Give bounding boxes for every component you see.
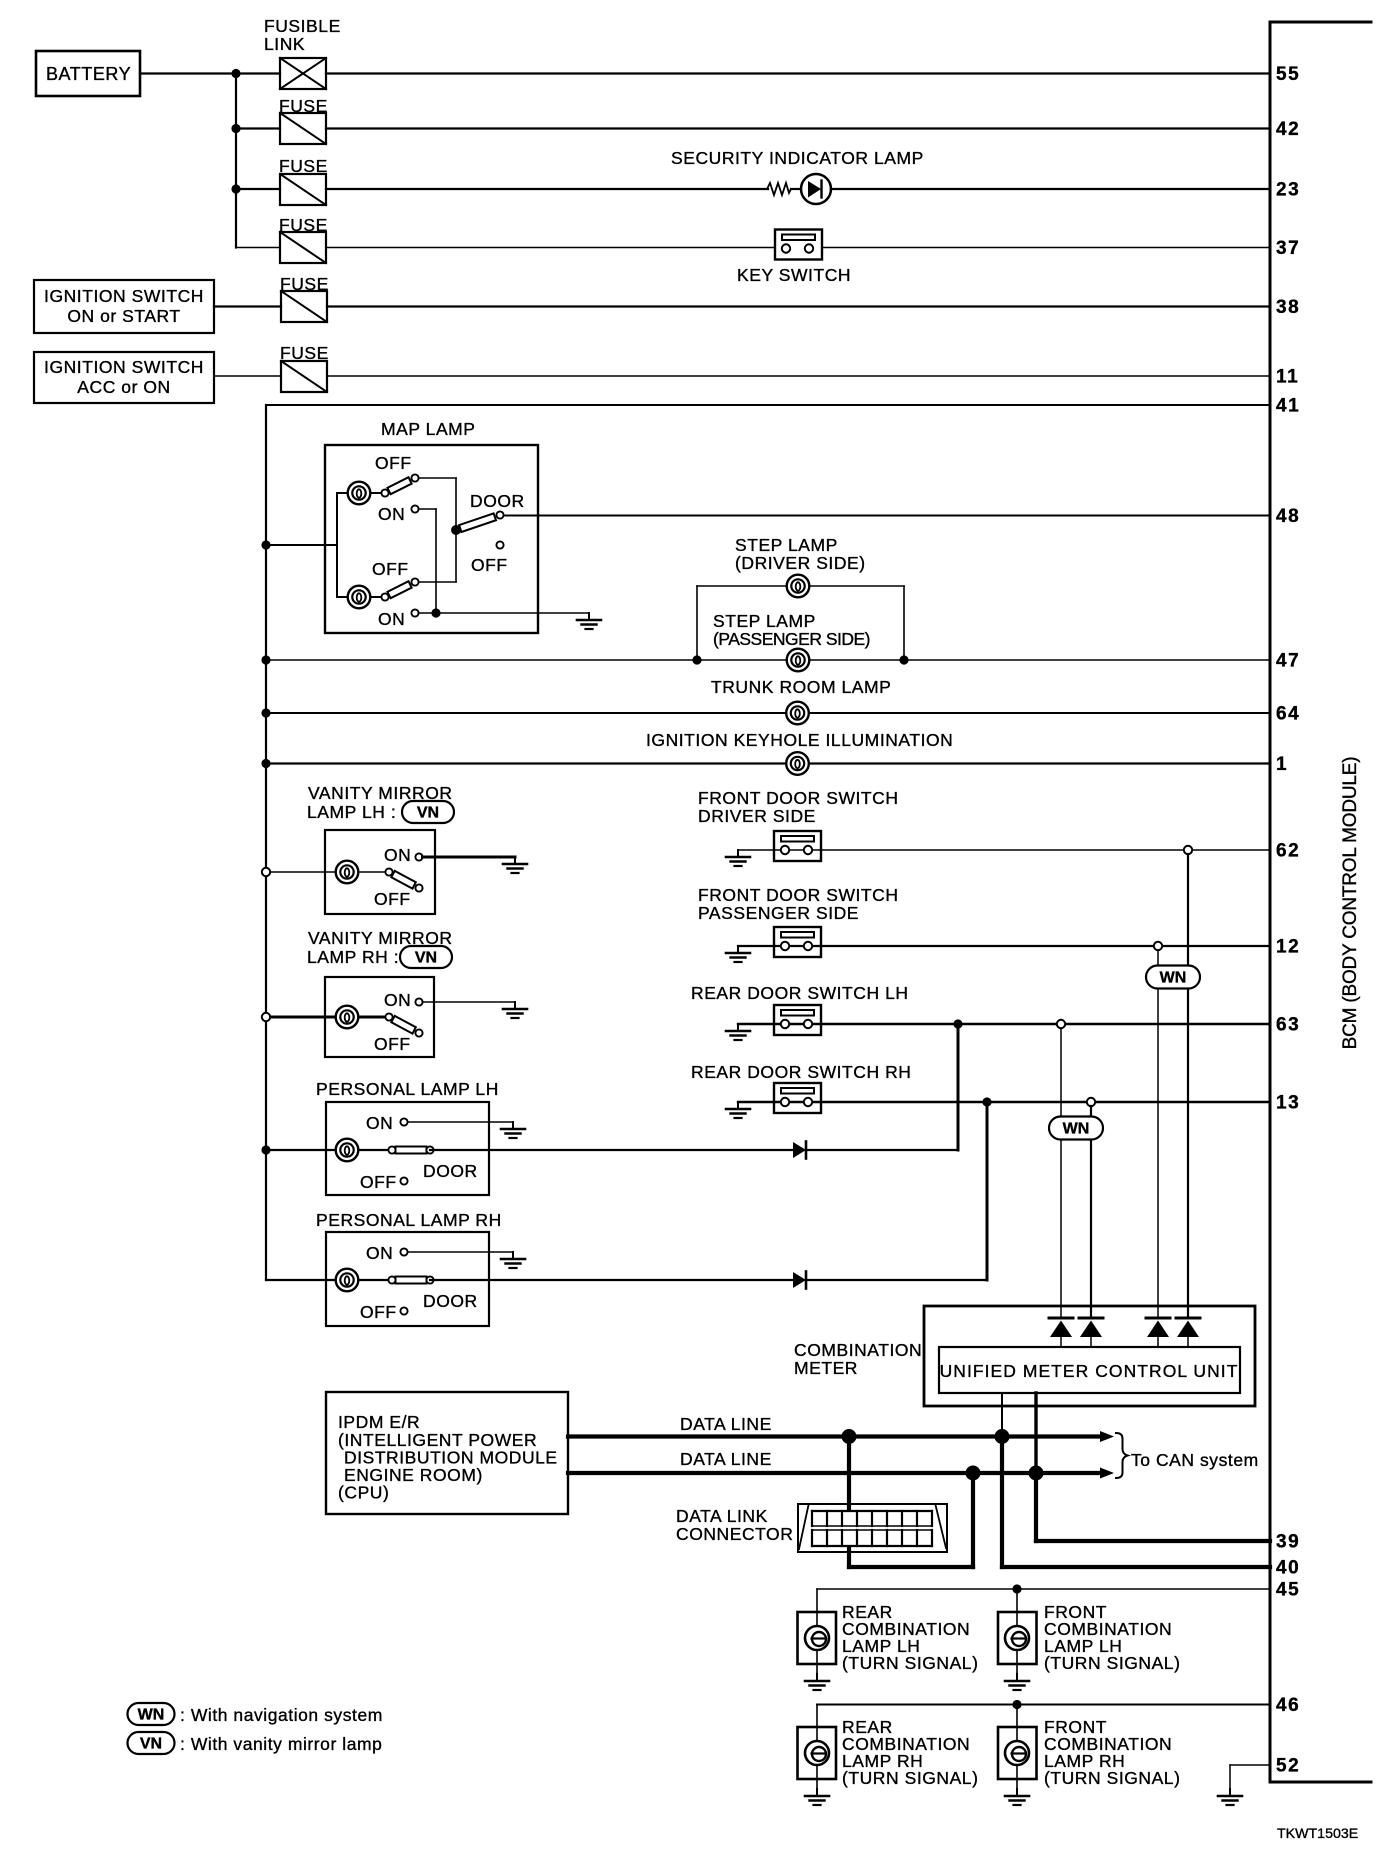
wire LED to BCM pin 23 bbox=[831, 188, 1270, 190]
ground vanity RH bbox=[514, 1002, 516, 1009]
wire row62 branch down to meter bbox=[1187, 854, 1189, 1318]
node battery junction bbox=[231, 69, 240, 78]
wire OFF2 contact up to pivot bbox=[419, 581, 457, 583]
svg-text:ON: ON bbox=[384, 845, 411, 865]
ground vanity LH bbox=[514, 857, 516, 864]
wire row 1 to BCM pin 1 bbox=[266, 762, 1270, 764]
svg-text:STEP LAMP: STEP LAMP bbox=[713, 611, 816, 631]
front door switch passenger side bbox=[774, 927, 821, 957]
node rail to map lamp bbox=[261, 540, 270, 549]
wire row 41 to BCM pin 41 bbox=[266, 404, 1270, 406]
wire fuse to resistor row 23 bbox=[326, 188, 768, 190]
wire map lamp door contact to BCM pin 48 bbox=[504, 515, 1270, 517]
wire row63 branch down to meter bbox=[1060, 1028, 1062, 1318]
svg-text:PERSONAL LAMP LH: PERSONAL LAMP LH bbox=[316, 1079, 499, 1099]
wire junction to fuse row 42 bbox=[236, 127, 280, 129]
node data line 1 / DLC branch bbox=[842, 1429, 857, 1444]
step lamp passenger side bulb bbox=[787, 649, 810, 672]
svg-text:To CAN system: To CAN system bbox=[1131, 1450, 1259, 1470]
svg-text:TKWT1503E: TKWT1503E bbox=[1277, 1826, 1358, 1842]
fusible link bbox=[280, 58, 326, 89]
svg-text:(TURN SIGNAL): (TURN SIGNAL) bbox=[842, 1768, 978, 1788]
wire row 63 bbox=[738, 1023, 1270, 1025]
wire map lamp bulb 2 row bbox=[337, 596, 382, 598]
diode personal LH bbox=[793, 1142, 806, 1158]
wire data line 1 (CAN) bbox=[568, 1434, 1102, 1438]
WN marker (door switch pair) bbox=[1146, 966, 1200, 989]
svg-text:WN: WN bbox=[1160, 970, 1187, 987]
svg-text:FUSIBLE: FUSIBLE bbox=[264, 16, 341, 36]
personal RH bulb bbox=[336, 1269, 359, 1292]
svg-text:DATA LINK: DATA LINK bbox=[676, 1506, 768, 1526]
arrow data line 1 bbox=[1100, 1431, 1114, 1442]
front door switch driver side bbox=[774, 831, 821, 861]
wire OFF1 contact to door-switch pivot bbox=[419, 477, 457, 479]
map lamp bulb 1 bbox=[348, 482, 371, 505]
wire row 46 to BCM pin 46 bbox=[817, 1704, 1270, 1706]
svg-text:55: 55 bbox=[1276, 64, 1300, 85]
wire rail to vanity LH bulb bbox=[271, 871, 387, 873]
wire ON1 contact down bbox=[419, 508, 437, 510]
personal lamp LH unit bbox=[326, 1102, 489, 1195]
node junction row 42 bbox=[231, 124, 240, 133]
wire row13 branch down to meter bbox=[1090, 1106, 1092, 1318]
svg-text:ON: ON bbox=[378, 609, 405, 629]
svg-text:LINK: LINK bbox=[264, 34, 305, 54]
node row 13 junction bbox=[982, 1097, 991, 1106]
svg-text:13: 13 bbox=[1276, 1093, 1300, 1114]
wire lamp supply rail bbox=[265, 405, 267, 1280]
wire map lamp internal vertical bbox=[336, 493, 338, 597]
ground personal RH bbox=[512, 1252, 514, 1259]
wire pin 52 to ground bbox=[1230, 1764, 1270, 1766]
node data line 2 / DLC return bbox=[966, 1466, 981, 1481]
svg-text:1: 1 bbox=[1276, 754, 1288, 775]
wire row 40 to BCM pin 40 bbox=[1002, 1565, 1270, 1569]
wire meter to data line 1 bbox=[1001, 1393, 1003, 1437]
personal RH door switch arm (closed) bbox=[396, 1277, 427, 1284]
svg-text:IPDM E/R: IPDM E/R bbox=[338, 1412, 420, 1432]
svg-text:DOOR: DOOR bbox=[423, 1291, 478, 1311]
svg-text:12: 12 bbox=[1276, 937, 1300, 958]
wire personal LH ON to ground bbox=[408, 1121, 514, 1123]
node step lamp right bbox=[899, 655, 908, 664]
svg-text:: With vanity mirror lamp: : With vanity mirror lamp bbox=[180, 1734, 382, 1754]
svg-text:STEP LAMP: STEP LAMP bbox=[735, 535, 838, 555]
node row 63 connector circle bbox=[1057, 1020, 1065, 1028]
front combination lamp RH bbox=[1016, 1705, 1018, 1790]
ignition keyhole illumination bulb bbox=[786, 752, 809, 775]
diode to meter (from row 12) bbox=[1146, 1317, 1170, 1320]
svg-text:IGNITION SWITCH: IGNITION SWITCH bbox=[44, 357, 204, 377]
node row 45 front lamp branch bbox=[1012, 1584, 1021, 1593]
BCM (Body Control Module) boundary line bbox=[1269, 22, 1272, 1782]
svg-text:DOOR: DOOR bbox=[423, 1161, 478, 1181]
node row 46 front lamp branch bbox=[1012, 1700, 1021, 1709]
wire ON contacts to ground bbox=[419, 612, 590, 614]
node rail row 47 bbox=[261, 655, 270, 664]
svg-text:COMBINATION: COMBINATION bbox=[794, 1340, 922, 1360]
svg-text:REAR DOOR SWITCH RH: REAR DOOR SWITCH RH bbox=[691, 1062, 911, 1082]
diode to meter (from row 13) bbox=[1079, 1317, 1103, 1320]
svg-text:BATTERY: BATTERY bbox=[46, 64, 131, 84]
VN marker vanity LH bbox=[402, 801, 454, 823]
svg-text:WN: WN bbox=[138, 1707, 165, 1724]
unified meter control unit bbox=[939, 1347, 1240, 1393]
ground personal LH bbox=[512, 1122, 514, 1129]
wire row 13 bbox=[738, 1101, 1270, 1103]
svg-text:OFF: OFF bbox=[471, 555, 508, 575]
wire rail elbow to personal RH bulb bbox=[266, 1279, 392, 1281]
arrow data line 2 bbox=[1100, 1468, 1114, 1479]
node row 12 connector circle bbox=[1154, 942, 1162, 950]
svg-text:46: 46 bbox=[1276, 1695, 1300, 1716]
svg-text:: With navigation system: : With navigation system bbox=[180, 1705, 383, 1725]
svg-text:(TURN SIGNAL): (TURN SIGNAL) bbox=[1044, 1768, 1180, 1788]
wire data line 2 (CAN) bbox=[568, 1471, 1102, 1475]
node rail row 1 bbox=[261, 759, 270, 768]
svg-text:FRONT DOOR SWITCH: FRONT DOOR SWITCH bbox=[698, 788, 899, 808]
svg-text:42: 42 bbox=[1276, 119, 1300, 140]
svg-text:PERSONAL LAMP RH: PERSONAL LAMP RH bbox=[316, 1210, 502, 1230]
diode personal RH bbox=[793, 1272, 806, 1288]
LED security indicator lamp bbox=[801, 174, 831, 204]
svg-text:VN: VN bbox=[140, 1736, 162, 1753]
svg-text:41: 41 bbox=[1276, 396, 1300, 417]
map lamp bulb 2 bbox=[348, 586, 371, 609]
node row 62 connector circle bbox=[1184, 846, 1192, 854]
personal LH door switch arm (closed) bbox=[396, 1147, 427, 1154]
wire DLC drop (data line 1) bbox=[847, 1437, 851, 1568]
svg-text:OFF: OFF bbox=[374, 1034, 411, 1054]
brace to CAN system bbox=[1116, 1433, 1128, 1478]
wire personal LH to diode bbox=[430, 1149, 793, 1151]
diode to meter (from row 63) bbox=[1049, 1317, 1073, 1320]
step lamp driver side bulb bbox=[787, 575, 810, 598]
wire personal RH to diode bbox=[430, 1279, 793, 1281]
svg-text:47: 47 bbox=[1276, 651, 1300, 672]
wire row 39 from data line 2 down bbox=[1034, 1473, 1038, 1541]
node junction row 23 bbox=[231, 184, 240, 193]
svg-text:OFF: OFF bbox=[360, 1172, 397, 1192]
wire ign1 to fuse bbox=[214, 305, 281, 307]
svg-text:48: 48 bbox=[1276, 506, 1300, 527]
svg-text:OFF: OFF bbox=[372, 559, 409, 579]
svg-text:SECURITY INDICATOR LAMP: SECURITY INDICATOR LAMP bbox=[671, 148, 924, 168]
combination meter box bbox=[924, 1306, 1255, 1406]
svg-text:62: 62 bbox=[1276, 841, 1300, 862]
wire ign2 to fuse bbox=[214, 375, 281, 377]
svg-text:OFF: OFF bbox=[360, 1302, 397, 1322]
IPDM E/R box bbox=[326, 1392, 568, 1514]
wire row 45 to BCM pin 45 bbox=[817, 1588, 1270, 1590]
wire diode LH to riser bbox=[806, 1149, 958, 1151]
wire diode RH to riser bbox=[806, 1279, 987, 1281]
svg-text:37: 37 bbox=[1276, 238, 1300, 259]
vanity mirror lamp LH unit bbox=[325, 830, 435, 914]
wire resistor to LED bbox=[791, 188, 801, 190]
svg-text:23: 23 bbox=[1276, 180, 1300, 201]
rear door switch LH bbox=[774, 1005, 821, 1035]
svg-text:LAMP RH :: LAMP RH : bbox=[307, 947, 399, 967]
svg-text:OFF: OFF bbox=[374, 889, 411, 909]
svg-text:45: 45 bbox=[1276, 1580, 1300, 1601]
wire row 55 to BCM pin 55 bbox=[326, 72, 1270, 74]
WN legend marker bbox=[128, 1703, 175, 1725]
svg-text:ON: ON bbox=[366, 1243, 393, 1263]
wire to map lamp bulb 1 bbox=[337, 492, 382, 494]
node row 63 junction bbox=[953, 1019, 962, 1028]
svg-text:IGNITION KEYHOLE ILLUMINATION: IGNITION KEYHOLE ILLUMINATION bbox=[646, 730, 953, 750]
ground rear door switch LH bbox=[737, 1024, 739, 1031]
svg-text:MAP LAMP: MAP LAMP bbox=[381, 419, 476, 439]
svg-text:DATA LINE: DATA LINE bbox=[680, 1449, 772, 1469]
wire rail to personal LH bulb bbox=[266, 1149, 392, 1151]
wire meter to data line 2 bbox=[1034, 1393, 1037, 1473]
svg-text:40: 40 bbox=[1276, 1558, 1300, 1579]
svg-text:IGNITION SWITCH: IGNITION SWITCH bbox=[44, 286, 204, 306]
wire key switch to BCM pin 37 bbox=[822, 247, 1270, 249]
wire feeder elbow to fuse row 37 bbox=[236, 247, 280, 249]
svg-text:ON: ON bbox=[378, 504, 405, 524]
wire row 62 bbox=[738, 849, 1270, 851]
svg-text:ON: ON bbox=[384, 990, 411, 1010]
rear door switch RH bbox=[774, 1083, 821, 1113]
wire junction to fuse row 23 bbox=[236, 188, 280, 190]
svg-text:FRONT DOOR SWITCH: FRONT DOOR SWITCH bbox=[698, 885, 899, 905]
node step lamp left bbox=[692, 655, 701, 664]
wire personal RH ON to ground bbox=[408, 1251, 514, 1253]
node rail personal LH bbox=[261, 1145, 270, 1154]
wire riser personal RH to row 13 bbox=[986, 1106, 989, 1280]
svg-text:BCM (BODY CONTROL MODULE): BCM (BODY CONTROL MODULE) bbox=[1340, 757, 1361, 1050]
wire battery feeder vertical bbox=[235, 74, 237, 248]
ignition switch ON or START bbox=[34, 280, 214, 333]
key switch bbox=[775, 230, 822, 260]
svg-text:VN: VN bbox=[417, 805, 439, 822]
svg-text:DRIVER SIDE: DRIVER SIDE bbox=[698, 806, 816, 826]
wire row 12 bbox=[738, 945, 1270, 947]
svg-text:(CPU): (CPU) bbox=[338, 1483, 389, 1503]
vanity RH bulb bbox=[336, 1006, 359, 1029]
step lamp parallel box wires bbox=[697, 585, 786, 587]
svg-text:LAMP LH :: LAMP LH : bbox=[307, 802, 396, 822]
svg-text:63: 63 bbox=[1276, 1015, 1300, 1036]
wire row 42 to BCM pin 42 bbox=[326, 127, 1270, 129]
rear combination lamp LH bbox=[816, 1589, 818, 1674]
svg-text:PASSENGER SIDE: PASSENGER SIDE bbox=[698, 903, 859, 923]
svg-text:(TURN SIGNAL): (TURN SIGNAL) bbox=[842, 1653, 978, 1673]
svg-text:64: 64 bbox=[1276, 704, 1300, 725]
wire DLC return up to data line 2 bbox=[849, 1565, 973, 1569]
svg-text:METER: METER bbox=[794, 1358, 858, 1378]
ground front door switch passenger side bbox=[737, 946, 739, 953]
svg-text:KEY SWITCH: KEY SWITCH bbox=[737, 265, 851, 285]
wire rail to vanity RH bulb bbox=[271, 1016, 387, 1019]
ground BCM pin 52 bbox=[1229, 1789, 1231, 1796]
svg-text:DOOR: DOOR bbox=[470, 491, 525, 511]
data link connector bbox=[798, 1504, 947, 1552]
svg-text:38: 38 bbox=[1276, 297, 1300, 318]
vanity LH bulb bbox=[336, 861, 359, 884]
svg-text:WN: WN bbox=[1063, 1121, 1090, 1138]
wire row 64 to BCM pin 64 bbox=[266, 712, 1270, 714]
svg-text:ACC or ON: ACC or ON bbox=[77, 377, 170, 397]
wire fuse to BCM pin 11 bbox=[327, 375, 1270, 377]
svg-text:(PASSENGER SIDE): (PASSENGER SIDE) bbox=[713, 629, 870, 649]
node rail vanity RH (connector circle) bbox=[262, 1013, 270, 1021]
wire fuse to BCM pin 38 bbox=[327, 305, 1270, 307]
ground front door switch driver side bbox=[737, 850, 739, 857]
resistor (security indicator) bbox=[767, 183, 791, 195]
node ON wire junction bbox=[431, 608, 440, 617]
VN legend marker bbox=[128, 1732, 175, 1754]
vanity mirror lamp RH unit bbox=[325, 977, 434, 1057]
svg-text:ON or START: ON or START bbox=[67, 306, 180, 326]
node rail row 64 bbox=[261, 708, 270, 717]
ignition switch ACC or ON bbox=[34, 352, 214, 403]
svg-text:39: 39 bbox=[1276, 1532, 1300, 1553]
front combination lamp LH bbox=[1016, 1589, 1018, 1674]
trunk room lamp bulb bbox=[786, 702, 809, 725]
node data line 1 / meter branch bbox=[995, 1429, 1010, 1444]
WN marker (rear door pair) bbox=[1049, 1117, 1103, 1140]
rear combination lamp RH bbox=[816, 1705, 818, 1790]
wire fuse to key switch bbox=[326, 247, 775, 249]
battery bbox=[36, 51, 140, 96]
wire riser personal LH to row 63 bbox=[957, 1024, 960, 1150]
svg-text:UNIFIED METER CONTROL UNIT: UNIFIED METER CONTROL UNIT bbox=[940, 1361, 1239, 1381]
wire vanity RH ON contact to ground bbox=[423, 1001, 516, 1003]
ground map lamp bbox=[588, 613, 590, 620]
wire row 39 to BCM pin 39 bbox=[1036, 1539, 1270, 1543]
svg-text:(TURN SIGNAL): (TURN SIGNAL) bbox=[1044, 1653, 1180, 1673]
wire row12 branch down to meter bbox=[1157, 950, 1159, 1318]
svg-text:CONNECTOR: CONNECTOR bbox=[676, 1524, 793, 1544]
node data line 2 / meter branch bbox=[1029, 1466, 1044, 1481]
svg-text:OFF: OFF bbox=[375, 453, 412, 473]
wire battery to junction bbox=[140, 72, 280, 74]
diode to meter (from row 62) bbox=[1176, 1317, 1200, 1320]
svg-text:(DRIVER SIDE): (DRIVER SIDE) bbox=[735, 553, 866, 573]
wire row 47 to BCM pin 47 bbox=[266, 659, 1270, 661]
personal lamp RH unit bbox=[326, 1232, 489, 1326]
node rail vanity LH (connector circle) bbox=[262, 868, 270, 876]
wire rail into map lamp bbox=[266, 544, 337, 546]
svg-text:VN: VN bbox=[415, 950, 437, 967]
wire vanity LH ON contact to ground bbox=[423, 856, 516, 859]
svg-text:REAR DOOR SWITCH LH: REAR DOOR SWITCH LH bbox=[691, 983, 909, 1003]
svg-text:11: 11 bbox=[1276, 367, 1299, 388]
personal LH bulb bbox=[336, 1139, 359, 1162]
svg-text:TRUNK ROOM LAMP: TRUNK ROOM LAMP bbox=[711, 677, 891, 697]
svg-text:DATA LINE: DATA LINE bbox=[680, 1414, 772, 1434]
node row 13 connector circle bbox=[1087, 1098, 1095, 1106]
VN marker vanity RH bbox=[400, 946, 452, 968]
svg-text:ON: ON bbox=[366, 1113, 393, 1133]
svg-text:52: 52 bbox=[1276, 1756, 1300, 1777]
ground rear door switch RH bbox=[737, 1102, 739, 1109]
wire row 40 from data line 1 down bbox=[1000, 1437, 1004, 1568]
